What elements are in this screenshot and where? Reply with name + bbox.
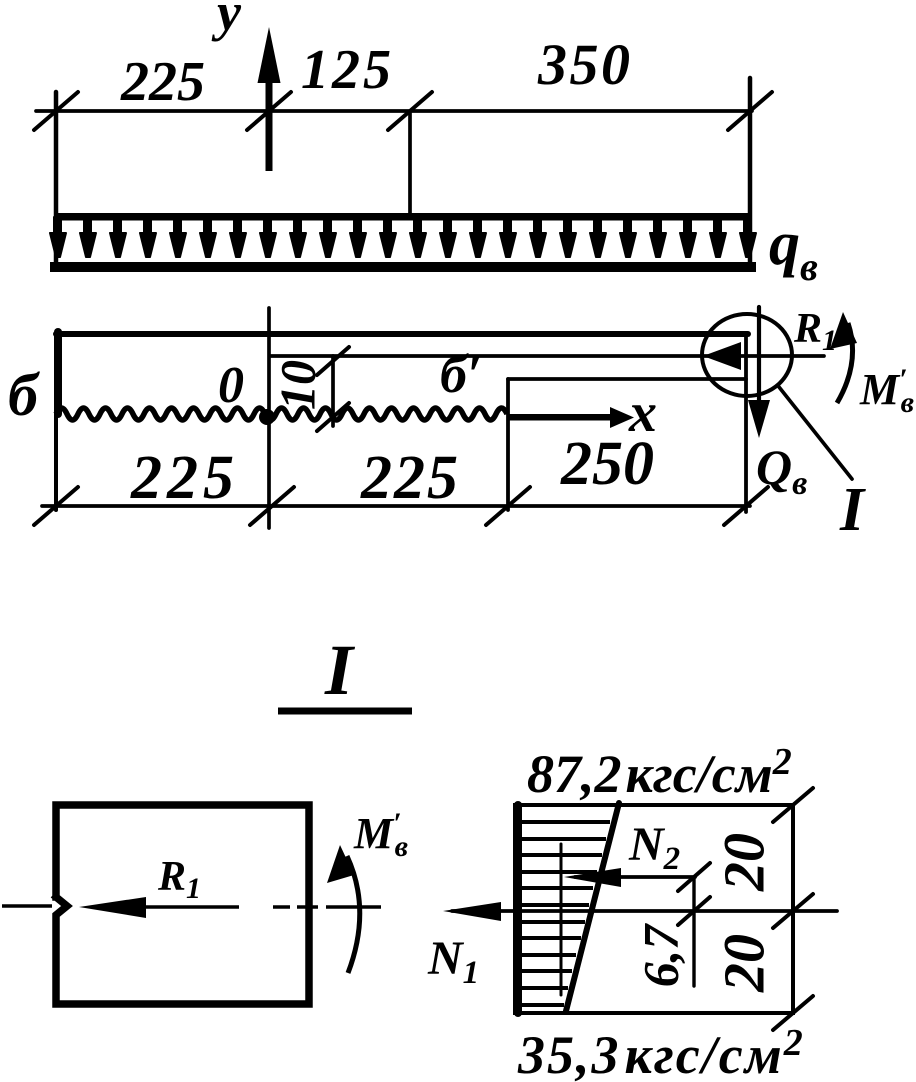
stress rect outline — [515, 805, 793, 1013]
load arrow 7 — [230, 217, 246, 257]
load arrow 6 — [200, 217, 216, 257]
svg-text:87,2кгс/см2: 87,2кгс/см2 — [527, 741, 792, 804]
load arrow 21 — [650, 217, 666, 257]
svg-text:I: I — [324, 630, 356, 710]
R1 arrowhead (left, middle figure) — [703, 342, 741, 370]
N2 arrowhead — [564, 868, 621, 887]
tick top x=56 — [34, 92, 78, 130]
step vertical / dim extension x=508 — [506, 379, 510, 510]
dim 6,7 extension — [692, 877, 695, 986]
load band top line — [54, 213, 752, 221]
load arrow 3 — [110, 217, 126, 257]
tick top x=410 — [388, 92, 432, 130]
svg-text:20: 20 — [711, 934, 776, 993]
centre approach line left — [2, 904, 52, 908]
top beam: top dimension line / beam top edge — [36, 109, 752, 113]
x axis arrow — [508, 407, 634, 428]
stress block left edge thick — [514, 805, 522, 1013]
svg-text:35,3кгс/см2: 35,3кгс/см2 — [517, 1022, 805, 1082]
tick 10 top — [317, 347, 349, 375]
svg-text:225: 225 — [360, 444, 460, 512]
beam second line / R1 force line — [271, 354, 824, 358]
Mv moment arc arrow (middle) — [837, 323, 853, 403]
load arrow 1 — [50, 217, 66, 257]
beam left edge (middle) upper thick — [54, 332, 62, 414]
load arrow 23 — [710, 217, 726, 257]
ticks right dim — [773, 788, 813, 822]
centre axis vertical — [267, 308, 271, 528]
tick bottom x=746 — [724, 487, 768, 525]
ground wavy line — [56, 408, 507, 420]
tick bottom x=56 — [34, 487, 78, 525]
top beam left edge — [54, 92, 59, 268]
stress inner vertical — [560, 844, 563, 995]
step horizontal line — [508, 377, 746, 381]
load arrow 10 — [320, 217, 336, 257]
tick top x=750 — [728, 92, 772, 130]
load arrow 11 — [350, 217, 366, 257]
load arrow 14 — [440, 217, 456, 257]
svg-text:250: 250 — [560, 430, 654, 498]
beam right edge (middle) — [744, 336, 748, 512]
svg-text:I: I — [839, 476, 866, 544]
tick bottom x=272 — [250, 487, 294, 525]
svg-text:225: 225 — [130, 444, 239, 512]
Qv force line — [757, 307, 761, 420]
svg-text:0: 0 — [218, 357, 244, 414]
load arrow 4 — [140, 217, 156, 257]
dim 10 extension line — [331, 356, 335, 426]
stress diagonal — [566, 803, 619, 1011]
top beam right edge — [748, 78, 753, 268]
svg-text:350: 350 — [537, 32, 633, 97]
tick top x=269 — [247, 92, 291, 130]
load arrow 22 — [680, 217, 696, 257]
svg-text:6,7: 6,7 — [632, 923, 688, 988]
load arrow 8 — [260, 217, 276, 257]
svg-text:M′в: M′в — [353, 807, 408, 863]
R1 arrowhead (detail) — [79, 897, 146, 918]
y axis arrow — [258, 27, 281, 171]
tick 10 bottom — [317, 403, 349, 431]
detail block outline — [56, 805, 309, 1004]
centre line with N1 — [452, 909, 837, 913]
Qv arrowhead (down) — [748, 400, 770, 438]
load arrow 9 — [290, 217, 306, 257]
load band bottom thick line — [50, 262, 756, 272]
svg-text:M′в: M′в — [859, 363, 914, 419]
N2 force line — [575, 875, 695, 879]
svg-text:10: 10 — [269, 360, 325, 410]
title underline — [278, 708, 412, 715]
svg-text:б: б — [8, 362, 40, 428]
svg-text:б′: б′ — [440, 344, 482, 404]
stress block hatch lines — [521, 822, 610, 1005]
origin dot — [259, 409, 275, 425]
tick bottom x=508 — [486, 487, 530, 525]
load arrow 17 — [530, 217, 546, 257]
svg-text:225: 225 — [120, 51, 205, 113]
svg-text:20: 20 — [711, 833, 776, 892]
Mv moment arc (detail) — [347, 856, 360, 973]
load arrow 12 — [380, 217, 396, 257]
leader line to I — [779, 387, 852, 479]
beam left edge (middle) lower — [54, 414, 58, 510]
load arrow 24 — [740, 217, 756, 257]
load arrow 13 — [410, 217, 426, 257]
beam top edge (middle) — [56, 331, 748, 337]
load arrow 2 — [80, 217, 96, 257]
load arrow 18 — [560, 217, 576, 257]
bottom dimension line — [42, 504, 750, 508]
R1 force line (detail) — [100, 905, 239, 909]
load arrow 5 — [170, 217, 186, 257]
detail circle I — [702, 314, 792, 396]
load arrow 19 — [590, 217, 606, 257]
centreline dashes right — [273, 905, 290, 909]
ticks 6,7 — [678, 863, 710, 891]
load arrow 15 — [470, 217, 486, 257]
load arrow 20 — [620, 217, 636, 257]
Mv arrowhead (detail) — [327, 845, 354, 883]
load arrow 16 — [500, 217, 516, 257]
N1 arrowhead — [443, 902, 501, 921]
svg-text:125: 125 — [301, 39, 394, 101]
top beam divider at 125/350 — [408, 111, 412, 218]
